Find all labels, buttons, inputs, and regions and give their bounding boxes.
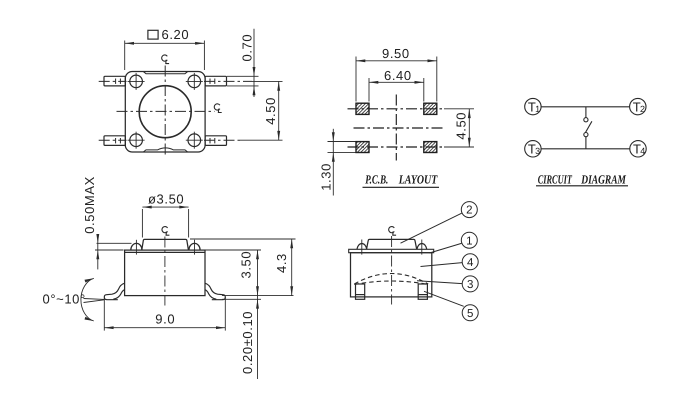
svg-text:9.0: 9.0: [155, 311, 175, 326]
svg-text:6.20: 6.20: [162, 27, 190, 42]
svg-text:4: 4: [640, 146, 645, 156]
svg-text:3: 3: [535, 146, 540, 156]
svg-text:CIRCUIT: CIRCUIT: [538, 172, 573, 186]
svg-text:1: 1: [466, 235, 472, 247]
svg-text:3.50: 3.50: [239, 251, 254, 279]
svg-text:ø3.50: ø3.50: [148, 192, 184, 207]
svg-text:DIAGRAM: DIAGRAM: [581, 172, 627, 186]
svg-text:4: 4: [467, 257, 474, 269]
svg-text:4.3: 4.3: [274, 253, 289, 273]
svg-text:9.50: 9.50: [382, 46, 410, 61]
svg-text:2: 2: [640, 104, 645, 114]
svg-text:5: 5: [467, 308, 473, 320]
svg-text:0.20±0.10: 0.20±0.10: [240, 311, 255, 374]
svg-text:1.30: 1.30: [319, 163, 334, 191]
svg-text:0.70: 0.70: [239, 34, 254, 62]
svg-text:0.50MAX: 0.50MAX: [82, 176, 97, 234]
svg-text:3: 3: [467, 279, 473, 291]
svg-text:4.50: 4.50: [453, 112, 468, 140]
svg-text:2: 2: [466, 205, 472, 217]
svg-text:0°~10°: 0°~10°: [43, 292, 86, 307]
svg-text:LAYOUT: LAYOUT: [398, 173, 438, 187]
svg-text:P.C.B.: P.C.B.: [365, 173, 388, 187]
svg-text:1: 1: [535, 104, 540, 114]
svg-text:4.50: 4.50: [263, 97, 278, 125]
svg-text:6.40: 6.40: [384, 68, 412, 83]
